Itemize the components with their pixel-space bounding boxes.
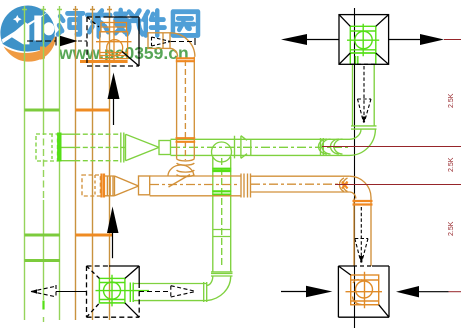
svg-text:2.5K: 2.5K [448, 93, 455, 108]
svg-text:2.5K: 2.5K [448, 157, 455, 172]
svg-text:2.5K: 2.5K [448, 221, 455, 236]
